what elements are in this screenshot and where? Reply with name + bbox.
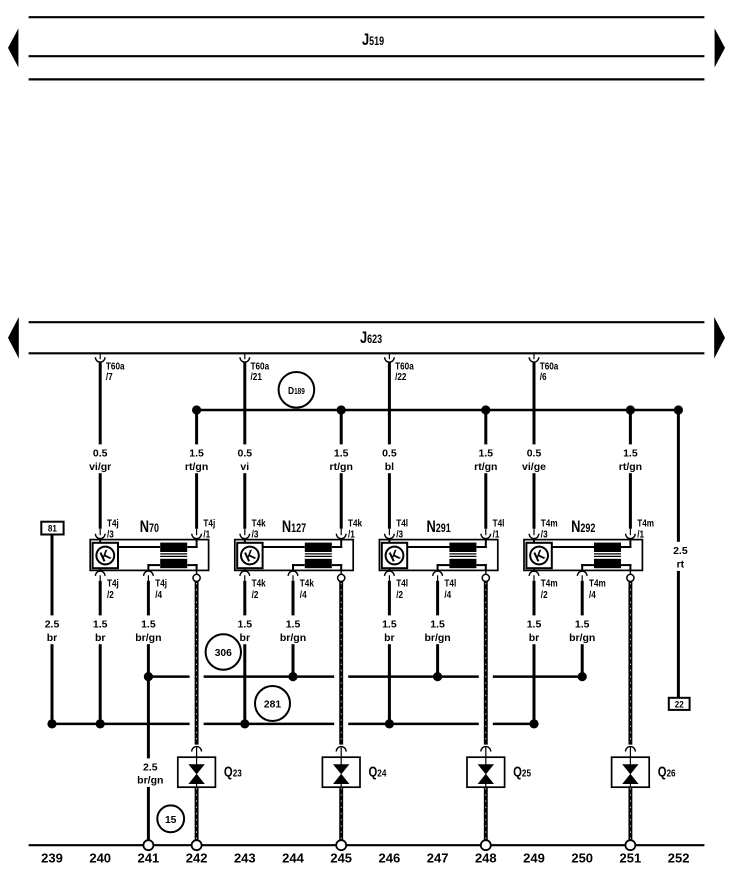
svg-text:/4: /4	[300, 588, 307, 600]
svg-text:br/gn: br/gn	[135, 632, 161, 644]
svg-text:/6: /6	[540, 370, 547, 382]
svg-text:br/gn: br/gn	[569, 632, 595, 644]
svg-text:252: 252	[668, 851, 690, 866]
svg-text:0.5: 0.5	[237, 448, 252, 460]
svg-text:/3: /3	[252, 527, 259, 539]
svg-text:/4: /4	[589, 588, 596, 600]
svg-text:1.5: 1.5	[575, 619, 590, 631]
svg-text:br/gn: br/gn	[424, 632, 450, 644]
svg-text:br/gn: br/gn	[280, 632, 306, 644]
svg-text:240: 240	[89, 851, 111, 866]
svg-text:br/gn: br/gn	[137, 775, 163, 787]
svg-text:vi/ge: vi/ge	[522, 461, 546, 473]
svg-text:bl: bl	[385, 461, 394, 473]
svg-text:/22: /22	[395, 370, 406, 382]
svg-text:2.5: 2.5	[673, 545, 688, 557]
svg-text:1.5: 1.5	[527, 619, 542, 631]
svg-text:rt/gn: rt/gn	[474, 461, 497, 473]
svg-text:81: 81	[48, 523, 57, 534]
svg-text:/4: /4	[155, 588, 162, 600]
svg-text:15: 15	[165, 815, 177, 826]
svg-text:1.5: 1.5	[189, 448, 204, 460]
svg-text:/1: /1	[637, 527, 644, 539]
svg-text:0.5: 0.5	[93, 448, 108, 460]
svg-text:1.5: 1.5	[478, 448, 493, 460]
svg-text:306: 306	[215, 648, 232, 659]
svg-text:Q24: Q24	[369, 763, 388, 780]
svg-text:/2: /2	[541, 588, 548, 600]
svg-text:242: 242	[186, 851, 208, 866]
svg-text:1.5: 1.5	[382, 619, 397, 631]
svg-text:247: 247	[427, 851, 449, 866]
svg-text:22: 22	[675, 699, 684, 710]
svg-text:rt/gn: rt/gn	[619, 461, 642, 473]
svg-text:br: br	[384, 632, 395, 644]
svg-text:rt/gn: rt/gn	[185, 461, 208, 473]
svg-text:br: br	[47, 632, 58, 644]
svg-text:1.5: 1.5	[237, 619, 252, 631]
svg-text:0.5: 0.5	[527, 448, 542, 460]
svg-text:/1: /1	[348, 527, 355, 539]
svg-text:/3: /3	[396, 527, 403, 539]
svg-text:1.5: 1.5	[286, 619, 301, 631]
svg-text:/2: /2	[252, 588, 259, 600]
svg-text:br: br	[95, 632, 106, 644]
svg-text:248: 248	[475, 851, 497, 866]
svg-text:rt: rt	[677, 559, 685, 571]
svg-text:vi: vi	[240, 461, 249, 473]
svg-text:2.5: 2.5	[45, 619, 60, 631]
svg-text:br: br	[529, 632, 540, 644]
svg-text:/2: /2	[107, 588, 114, 600]
svg-text:245: 245	[330, 851, 352, 866]
svg-text:br: br	[240, 632, 251, 644]
svg-text:241: 241	[138, 851, 160, 866]
svg-text:1.5: 1.5	[334, 448, 349, 460]
svg-text:2.5: 2.5	[143, 762, 158, 774]
svg-text:/2: /2	[396, 588, 403, 600]
svg-text:250: 250	[571, 851, 593, 866]
svg-text:1.5: 1.5	[141, 619, 156, 631]
svg-text:1.5: 1.5	[623, 448, 638, 460]
svg-text:243: 243	[234, 851, 256, 866]
svg-text:244: 244	[282, 851, 304, 866]
svg-text:rt/gn: rt/gn	[330, 461, 353, 473]
svg-text:246: 246	[379, 851, 401, 866]
svg-text:0.5: 0.5	[382, 448, 397, 460]
svg-text:/4: /4	[444, 588, 451, 600]
svg-text:D189: D189	[288, 385, 305, 397]
svg-text:/1: /1	[203, 527, 210, 539]
svg-text:Q23: Q23	[224, 763, 242, 780]
svg-text:/21: /21	[251, 370, 262, 382]
svg-text:239: 239	[41, 851, 63, 866]
svg-text:281: 281	[264, 700, 281, 711]
svg-text:Q25: Q25	[513, 763, 531, 780]
svg-text:/7: /7	[106, 370, 113, 382]
svg-text:1.5: 1.5	[93, 619, 108, 631]
svg-text:1.5: 1.5	[430, 619, 445, 631]
svg-text:/1: /1	[493, 527, 500, 539]
svg-text:Q26: Q26	[658, 763, 676, 780]
svg-text:249: 249	[523, 851, 545, 866]
svg-text:/3: /3	[107, 527, 114, 539]
svg-text:vi/gr: vi/gr	[89, 461, 111, 473]
svg-text:251: 251	[620, 851, 642, 866]
svg-text:/3: /3	[541, 527, 548, 539]
